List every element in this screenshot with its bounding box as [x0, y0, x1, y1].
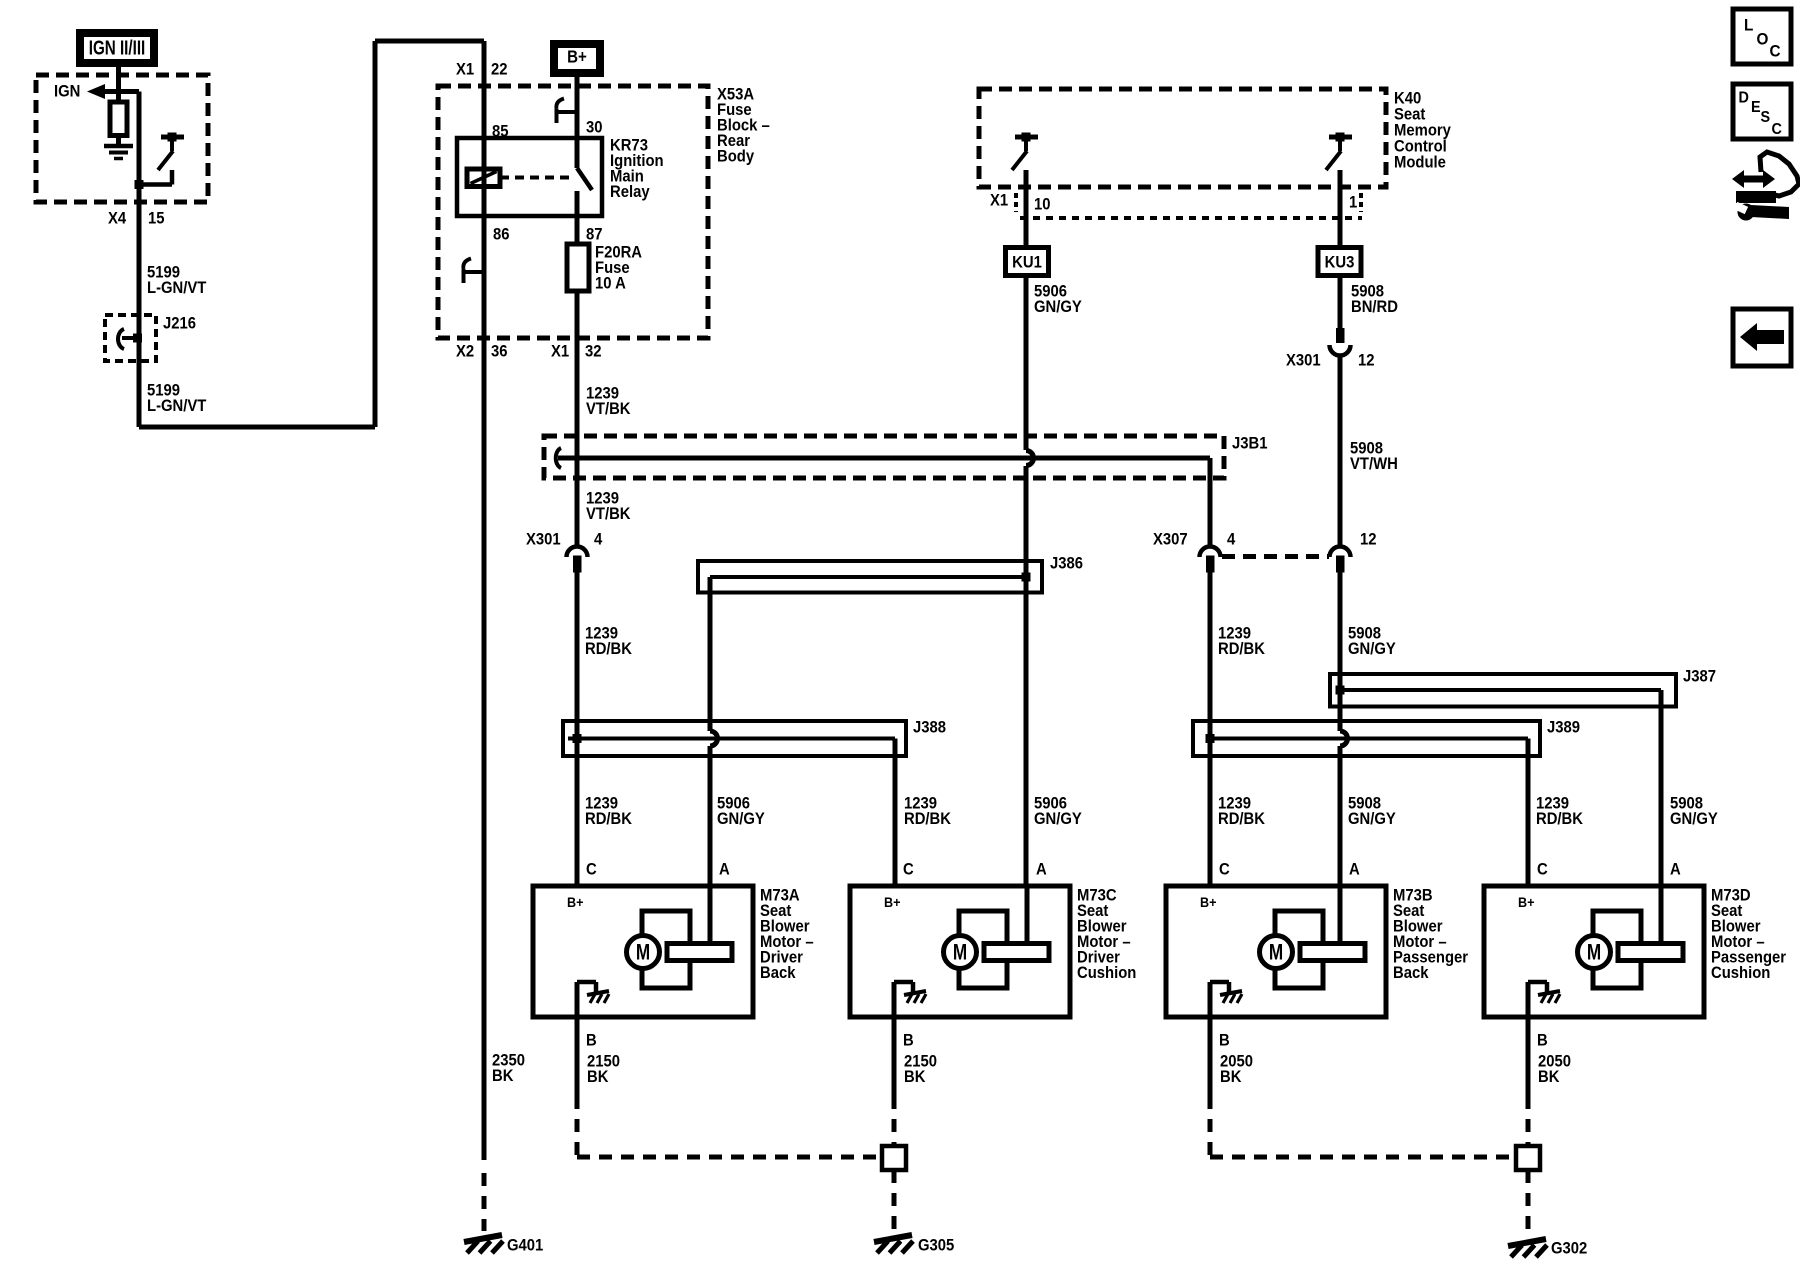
svg-text:B+: B+ — [1518, 895, 1535, 911]
svg-text:GN/GY: GN/GY — [1348, 640, 1396, 658]
svg-text:L-GN/VT: L-GN/VT — [147, 397, 207, 415]
svg-text:Body: Body — [717, 148, 754, 166]
svg-text:RD/BK: RD/BK — [585, 640, 633, 658]
svg-text:X1: X1 — [990, 192, 1008, 210]
svg-text:BK: BK — [587, 1068, 609, 1086]
svg-text:IGN II/III: IGN II/III — [89, 36, 146, 59]
svg-text:4: 4 — [1227, 531, 1236, 549]
svg-text:E: E — [1751, 98, 1761, 116]
svg-text:BN/RD: BN/RD — [1351, 298, 1398, 316]
svg-text:BK: BK — [904, 1068, 926, 1086]
svg-text:KU3: KU3 — [1325, 254, 1355, 272]
svg-text:O: O — [1757, 30, 1769, 49]
svg-text:A: A — [1670, 861, 1681, 879]
svg-text:Module: Module — [1394, 154, 1446, 172]
svg-text:86: 86 — [493, 226, 510, 244]
svg-text:B: B — [586, 1032, 597, 1050]
svg-text:VT/BK: VT/BK — [586, 505, 631, 523]
svg-text:B+: B+ — [567, 895, 584, 911]
svg-text:B: B — [1219, 1032, 1230, 1050]
svg-text:GN/GY: GN/GY — [1034, 810, 1082, 828]
svg-text:GN/GY: GN/GY — [717, 810, 765, 828]
svg-text:X1: X1 — [551, 343, 569, 361]
svg-text:A: A — [719, 861, 730, 879]
svg-text:87: 87 — [586, 226, 603, 244]
svg-text:C: C — [1537, 861, 1548, 879]
svg-text:RD/BK: RD/BK — [1536, 810, 1584, 828]
svg-text:B+: B+ — [1200, 895, 1217, 911]
svg-text:Relay: Relay — [610, 183, 650, 201]
svg-text:J388: J388 — [913, 719, 946, 737]
svg-text:S: S — [1761, 108, 1771, 126]
svg-text:1: 1 — [1349, 194, 1358, 212]
svg-text:C: C — [1770, 42, 1781, 61]
svg-text:BK: BK — [492, 1067, 514, 1085]
svg-text:GN/GY: GN/GY — [1348, 810, 1396, 828]
svg-text:X307: X307 — [1153, 531, 1188, 549]
svg-text:G302: G302 — [1551, 1240, 1588, 1258]
svg-text:M: M — [953, 941, 967, 966]
svg-text:B: B — [903, 1032, 914, 1050]
svg-text:RD/BK: RD/BK — [1218, 810, 1266, 828]
svg-text:10 A: 10 A — [595, 275, 626, 293]
svg-text:15: 15 — [148, 210, 165, 228]
svg-text:12: 12 — [1358, 352, 1375, 370]
svg-text:BK: BK — [1220, 1068, 1242, 1086]
svg-text:X301: X301 — [526, 531, 561, 549]
svg-text:J387: J387 — [1683, 668, 1716, 686]
svg-text:C: C — [586, 861, 597, 879]
svg-text:IGN: IGN — [54, 83, 80, 101]
svg-text:X4: X4 — [108, 210, 126, 228]
svg-text:A: A — [1036, 861, 1047, 879]
svg-text:32: 32 — [585, 343, 602, 361]
svg-text:J216: J216 — [163, 315, 196, 333]
svg-text:G401: G401 — [507, 1237, 544, 1255]
svg-text:22: 22 — [491, 61, 508, 79]
svg-text:J389: J389 — [1547, 719, 1580, 737]
svg-text:D: D — [1739, 89, 1749, 107]
svg-text:Back: Back — [760, 964, 796, 982]
svg-text:X301: X301 — [1286, 352, 1321, 370]
svg-text:RD/BK: RD/BK — [1218, 640, 1266, 658]
svg-text:12: 12 — [1360, 531, 1377, 549]
svg-text:G305: G305 — [918, 1237, 955, 1255]
svg-text:L: L — [1744, 16, 1753, 35]
svg-text:GN/GY: GN/GY — [1670, 810, 1718, 828]
svg-text:B+: B+ — [567, 46, 587, 67]
svg-text:C: C — [1219, 861, 1230, 879]
svg-text:B: B — [1537, 1032, 1548, 1050]
svg-text:C: C — [1772, 120, 1782, 138]
svg-text:30: 30 — [586, 119, 603, 137]
svg-text:Cushion: Cushion — [1077, 964, 1136, 982]
svg-text:GN/GY: GN/GY — [1034, 298, 1082, 316]
svg-text:C: C — [903, 861, 914, 879]
svg-text:Cushion: Cushion — [1711, 964, 1770, 982]
svg-text:J386: J386 — [1050, 555, 1083, 573]
svg-text:L-GN/VT: L-GN/VT — [147, 279, 207, 297]
svg-text:X2: X2 — [456, 343, 474, 361]
svg-text:X1: X1 — [456, 61, 474, 79]
svg-text:M: M — [1269, 941, 1283, 966]
svg-text:VT/BK: VT/BK — [586, 400, 631, 418]
svg-text:85: 85 — [492, 123, 509, 141]
svg-text:BK: BK — [1538, 1068, 1560, 1086]
svg-text:RD/BK: RD/BK — [904, 810, 952, 828]
svg-text:Back: Back — [1393, 964, 1429, 982]
svg-text:B+: B+ — [884, 895, 901, 911]
svg-text:M: M — [1587, 941, 1601, 966]
svg-text:A: A — [1349, 861, 1360, 879]
svg-text:VT/WH: VT/WH — [1350, 455, 1398, 473]
svg-text:J3B1: J3B1 — [1232, 435, 1268, 453]
svg-text:4: 4 — [594, 531, 603, 549]
svg-text:RD/BK: RD/BK — [585, 810, 633, 828]
svg-text:10: 10 — [1034, 196, 1051, 214]
svg-text:M: M — [636, 941, 650, 966]
svg-text:KU1: KU1 — [1012, 254, 1042, 272]
svg-text:36: 36 — [491, 343, 508, 361]
